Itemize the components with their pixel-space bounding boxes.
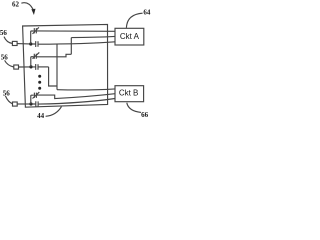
wire row3 input	[17, 103, 30, 105]
label 56 row1	[0, 29, 7, 37]
label 44	[37, 112, 45, 120]
leader for 56 row1	[4, 37, 12, 44]
antifuse AF2	[33, 52, 40, 58]
wire V2 drop from row1 line	[56, 44, 58, 90]
wire row2 riser to antifuse	[31, 57, 34, 67]
label 62	[12, 0, 20, 8]
interconnect block 62 (large rectangle)	[23, 24, 108, 107]
svg-text:64: 64	[143, 8, 151, 16]
input terminal 56 (row 3)	[13, 102, 18, 106]
svg-text:56: 56	[0, 29, 7, 37]
input terminal 56 (row 2)	[14, 65, 19, 69]
svg-text:56: 56	[3, 90, 11, 98]
antifuse AF3	[33, 92, 40, 98]
Ckt A box U-A	[115, 28, 144, 45]
label 56 row2	[1, 54, 9, 62]
leader for 56 row2	[5, 60, 14, 67]
svg-text:Ckt A: Ckt A	[120, 32, 140, 41]
label 66	[141, 111, 149, 119]
wire AF3 output with jog down to B2	[36, 94, 115, 99]
label Ckt B	[119, 89, 139, 98]
svg-text:44: 44	[37, 112, 45, 120]
leader for 56 row3	[5, 96, 12, 104]
leader for 44	[46, 107, 62, 117]
wire row3 riser to antifuse	[31, 95, 34, 104]
antifuse AF1	[33, 27, 39, 34]
wire row2 input	[18, 66, 30, 68]
wire B1 to Ckt B	[57, 89, 115, 90]
leader arrow for 62	[21, 3, 33, 9]
svg-text:62: 62	[12, 0, 20, 8]
wire AF2 output with jog up	[36, 54, 71, 57]
wire V3 riser	[70, 38, 72, 55]
wire row1 riser to antifuse	[31, 31, 34, 44]
input terminal 56 (row 1)	[12, 41, 17, 45]
leader for 64	[126, 13, 142, 28]
svg-text:66: 66	[141, 111, 149, 119]
ellipsis dots	[38, 75, 41, 78]
capacitor C3	[32, 101, 38, 107]
node row2 junction dot	[29, 65, 32, 68]
capacitor C2	[32, 64, 38, 70]
wire row1 input	[17, 43, 30, 45]
label 64	[143, 8, 151, 16]
wire A2 to Ckt A	[71, 36, 115, 37]
node row1 junction dot	[29, 42, 32, 45]
wire V1 drop	[49, 67, 57, 86]
capacitor C1	[32, 41, 38, 47]
label Ckt A	[120, 32, 140, 41]
wire row2 to V1	[38, 66, 49, 68]
Ckt B box U-B	[115, 86, 144, 102]
wire B3 to Ckt B	[38, 99, 115, 105]
svg-text:Ckt B: Ckt B	[119, 89, 139, 98]
wire A1 to Ckt A	[36, 30, 115, 32]
leader for 66	[127, 103, 141, 113]
node row3 junction dot	[29, 102, 32, 105]
label 56 row3	[3, 90, 11, 98]
wire A3 row1 to Ckt A	[38, 42, 115, 44]
